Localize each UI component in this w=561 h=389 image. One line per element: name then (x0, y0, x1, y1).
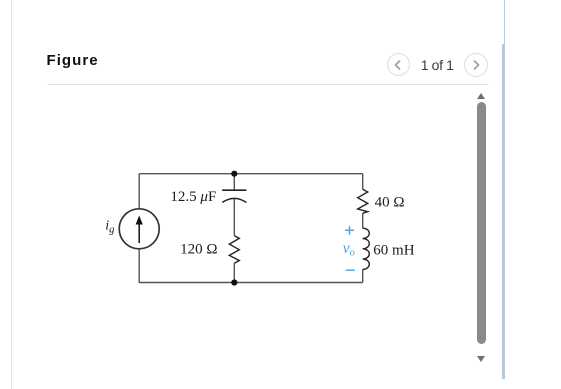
svg-text:120 Ω: 120 Ω (180, 242, 217, 258)
svg-text:vo: vo (343, 240, 355, 259)
svg-text:12.5 μF: 12.5 μF (170, 189, 216, 205)
svg-text:40 Ω: 40 Ω (375, 194, 405, 210)
svg-text:ig: ig (105, 219, 114, 236)
svg-text:60 mH: 60 mH (373, 242, 414, 258)
